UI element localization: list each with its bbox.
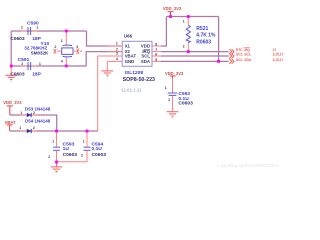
svg-text:RTC_IRQ: RTC_IRQ xyxy=(236,48,251,52)
svg-text:2: 2 xyxy=(81,153,83,157)
svg-text:2: 2 xyxy=(183,45,185,49)
diode D53 xyxy=(10,115,57,131)
svg-text:D53 1N4148: D53 1N4148 xyxy=(25,107,51,112)
svg-text:ISL1208: ISL1208 xyxy=(125,70,144,76)
svg-text:11.01.1.11: 11.01.1.11 xyxy=(121,88,142,93)
wire SCL xyxy=(161,55,229,57)
no-connect mark Y10 pin 3 xyxy=(77,49,82,54)
svg-text:D54 1N4148: D54 1N4148 xyxy=(25,118,51,123)
wire IRQ xyxy=(161,51,229,53)
svg-text:VDD: VDD xyxy=(141,44,150,49)
svg-text:1U: 1U xyxy=(63,146,70,152)
junction VDD_3V3 symbol on VDD rail xyxy=(169,15,172,18)
wire bottom rail y=66 xyxy=(11,65,86,67)
svg-text:VBAT: VBAT xyxy=(125,54,137,59)
wire VBAT vertical xyxy=(98,55,123,57)
svg-text:2: 2 xyxy=(116,47,118,51)
IC left pins xyxy=(107,45,122,47)
crystal Y10 xyxy=(62,48,73,55)
overline on IRQ pin name xyxy=(144,48,151,50)
svg-text:1: 1 xyxy=(19,126,21,130)
svg-text:3: 3 xyxy=(116,52,118,56)
svg-text:C591: C591 xyxy=(18,57,30,63)
svg-text:C0603: C0603 xyxy=(10,36,25,42)
capacitor C592 xyxy=(172,78,174,93)
svg-text:1: 1 xyxy=(39,62,41,66)
junction node B (C594 on VBAT node) xyxy=(86,130,89,133)
svg-text:R521: R521 xyxy=(196,26,208,32)
wire crystal bottom stub xyxy=(65,57,67,66)
svg-text:SOP8-50-223: SOP8-50-223 xyxy=(123,77,155,83)
svg-text:X1: X1 xyxy=(125,44,131,49)
svg-text:t.qq.Mag.qxbaaWNG1C0t5: t.qq.Mag.qxbaaWNG1C0t5 xyxy=(217,163,279,168)
svg-text:17: 17 xyxy=(273,48,277,52)
wire SDA xyxy=(161,60,229,62)
svg-text:1: 1 xyxy=(52,140,54,144)
wire crystal top stub xyxy=(65,31,67,45)
wire top VDD rail xyxy=(166,16,218,18)
svg-text:C0603: C0603 xyxy=(92,152,107,158)
svg-text:4: 4 xyxy=(116,57,118,61)
wire X1 xyxy=(87,31,123,46)
svg-text:1: 1 xyxy=(165,86,167,90)
capacitor C591 xyxy=(21,65,27,67)
svg-text:VDD_3V3: VDD_3V3 xyxy=(165,71,184,76)
svg-text:VDD_3V3: VDD_3V3 xyxy=(163,6,182,11)
svg-text:3,15,17: 3,15,17 xyxy=(273,58,284,62)
junction node A (D53/C593 on VBAT node) xyxy=(55,130,58,133)
svg-text:I2C1_SCL: I2C1_SCL xyxy=(236,52,251,56)
svg-text:SM032K: SM032K xyxy=(31,51,49,56)
wire GND pin to ground xyxy=(106,61,108,70)
capacitor C593 xyxy=(56,131,58,147)
junction R521 top on VDD rail xyxy=(187,15,190,18)
svg-text:4.7K 1%: 4.7K 1% xyxy=(196,33,216,39)
svg-text:8: 8 xyxy=(155,42,157,46)
svg-text:18P: 18P xyxy=(32,71,41,77)
svg-text:SCL: SCL xyxy=(141,54,150,59)
no-connect mark Y10 pin 2 xyxy=(54,49,57,54)
ground under C592 xyxy=(167,112,179,118)
svg-text:VBAT: VBAT xyxy=(5,120,16,125)
svg-text:5: 5 xyxy=(155,58,157,62)
IC right pins xyxy=(152,45,161,47)
capacitor C594 xyxy=(86,131,88,147)
svg-text:2: 2 xyxy=(168,98,170,102)
capacitor C590 xyxy=(21,30,27,32)
ground under C591 xyxy=(5,75,17,81)
junction C591 / ground branch xyxy=(10,65,13,68)
resistor R521 xyxy=(187,17,189,26)
svg-text:1: 1 xyxy=(61,39,63,43)
wire X2 xyxy=(86,52,122,66)
svg-text:2: 2 xyxy=(21,25,23,29)
svg-text:VDD_3V3: VDD_3V3 xyxy=(3,100,22,105)
overline on RTC_IRQ xyxy=(244,46,251,48)
offpage chevrons xyxy=(229,49,234,64)
svg-text:7: 7 xyxy=(155,48,157,52)
svg-text:2: 2 xyxy=(48,155,50,159)
svg-text:C0603: C0603 xyxy=(63,152,78,158)
svg-text:1: 1 xyxy=(36,25,38,29)
svg-text:1: 1 xyxy=(183,19,185,23)
wire VDD pin8 to rail xyxy=(161,17,167,47)
junction C593/C594 ground rail xyxy=(55,161,58,164)
IC U66 ISL1208 xyxy=(122,41,152,66)
ground under C593/C594 xyxy=(56,162,58,167)
ground under IC GND pin xyxy=(102,71,114,77)
svg-text:1: 1 xyxy=(20,111,22,115)
svg-text:3: 3 xyxy=(76,45,78,49)
junction pull-up branch on SDA net xyxy=(217,60,220,63)
svg-text:I2C1_SDA: I2C1_SDA xyxy=(236,58,252,62)
svg-text:SDA: SDA xyxy=(141,59,150,64)
svg-text:1: 1 xyxy=(83,140,85,144)
wire right vertical to SDA xyxy=(218,17,220,62)
svg-text:C0603: C0603 xyxy=(10,71,25,77)
svg-text:4: 4 xyxy=(61,59,63,63)
svg-text:R0603: R0603 xyxy=(196,39,211,45)
svg-text:6: 6 xyxy=(155,52,157,56)
svg-text:2: 2 xyxy=(54,45,56,49)
svg-text:GND: GND xyxy=(125,59,135,64)
wire left vertical x=11.2 xyxy=(10,31,12,66)
junction crystal pin1 / top rail xyxy=(65,30,68,33)
junction crystal pin4 / bottom rail xyxy=(65,65,68,68)
svg-text:U66: U66 xyxy=(124,34,133,39)
power VDD_3V3 top xyxy=(168,12,174,17)
wire top rail y=31 xyxy=(11,30,86,32)
svg-text:3,15,17: 3,15,17 xyxy=(273,52,284,56)
diode D54 xyxy=(10,130,98,132)
svg-text:0.1U: 0.1U xyxy=(92,146,103,152)
IC pin names xyxy=(125,44,151,64)
svg-text:2: 2 xyxy=(21,62,23,66)
svg-text:2: 2 xyxy=(33,126,35,130)
svg-text:1: 1 xyxy=(116,42,118,46)
junction R521 bottom on IRQ net xyxy=(187,50,190,53)
svg-text:C0603: C0603 xyxy=(178,101,193,107)
